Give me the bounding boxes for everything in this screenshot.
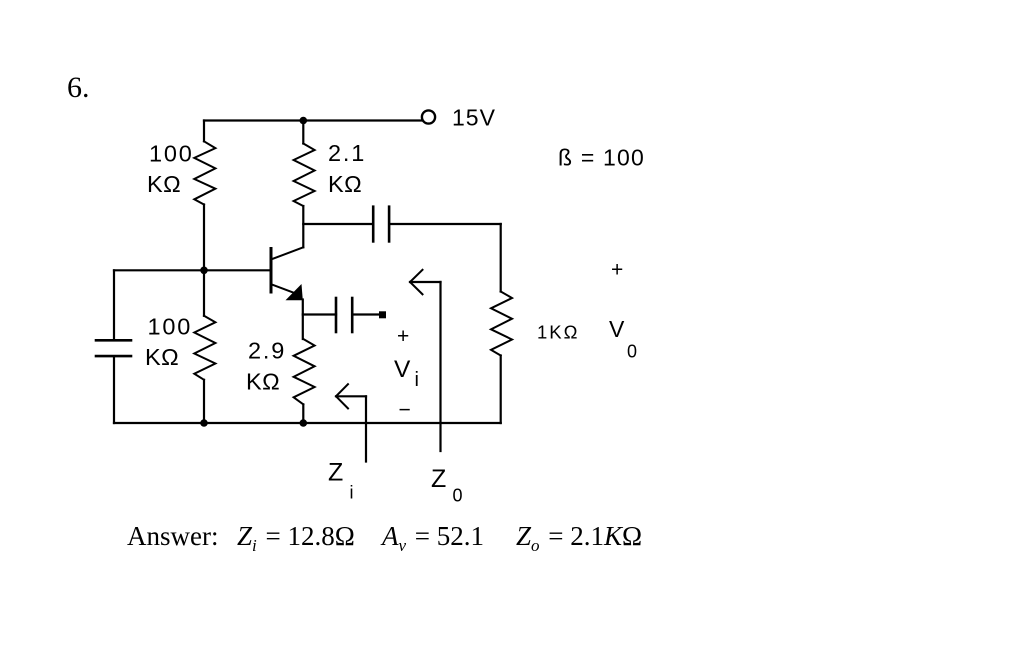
wire R1 bottom to base node [203,205,205,271]
node dot top rail [300,117,308,125]
label answer line [127,521,642,555]
label Zo [431,465,463,506]
svg-text:V: V [609,316,625,342]
terminal 15V [422,110,435,123]
node square bypass cap end [379,311,386,318]
wire right vertical to R5 [500,224,502,292]
svg-text:KΩ: KΩ [145,344,179,370]
resistor R2 2.1K [294,144,315,207]
label R1 value 100 [149,141,194,167]
label R4 value 2.9 [248,338,286,364]
label beta = 100 [558,145,645,171]
wire R3 bottom [203,380,205,423]
svg-text:15V: 15V [452,105,496,131]
node dot base [200,267,208,275]
svg-text:−: − [399,399,411,422]
svg-text:+: + [397,325,409,348]
node dot bottom emitter [300,419,308,427]
wire base [114,269,270,271]
transistor Q1 base bar [270,249,273,293]
wire input left vertical bottom [113,356,115,423]
label R4 unit KOhm [246,369,280,395]
svg-text:1KΩ: 1KΩ [537,322,579,343]
svg-text:100: 100 [148,314,193,340]
svg-text:Answer:: Answer: [127,521,218,551]
label Vo plus [611,259,623,282]
label problem number 6. [67,71,90,104]
capacitor C1 input [96,340,131,356]
svg-text:0: 0 [627,342,637,362]
wire R4 bottom [302,404,304,423]
resistor R1 100K [194,141,215,204]
label Vi [394,356,419,391]
svg-text:KΩ: KΩ [147,171,181,197]
label Vi plus [397,325,409,348]
svg-text:2.9: 2.9 [248,338,286,364]
svg-text:100: 100 [149,141,194,167]
label Zi [328,459,354,503]
node dot bottom left [200,419,208,427]
label R3 unit KOhm [145,344,179,370]
label R1 unit KOhm [147,171,181,197]
svg-text:ß = 100: ß = 100 [558,145,645,171]
wire R2 top [302,121,304,144]
wire R3 top [203,270,205,316]
label R2 unit KOhm [328,171,362,197]
svg-text:Zi = 12.8Ω: Zi = 12.8Ω [237,521,355,555]
svg-text:Zo = 2.1KΩ: Zo = 2.1KΩ [516,521,642,555]
wire collector cap left [303,223,373,225]
label Vo [609,316,637,362]
wire bypass cap right stub [352,313,379,315]
svg-text:2.1: 2.1 [328,140,366,166]
capacitor C2 output coupling [373,207,389,242]
svg-text:0: 0 [453,486,463,506]
transistor Q1 emitter lead [272,285,296,294]
wire R1 top [203,121,205,142]
svg-text:Av = 52.1: Av = 52.1 [380,521,484,555]
label Vi minus [399,399,411,422]
svg-text:i: i [415,369,419,391]
svg-text:KΩ: KΩ [246,369,280,395]
svg-text:Z: Z [328,459,343,487]
resistor R4 2.9K [294,339,315,404]
label 15V [452,105,496,131]
svg-text:+: + [611,259,623,282]
transistor Q1 collector lead [272,247,303,259]
resistor R5 1K [491,292,512,356]
wire R5 bottom [500,356,502,424]
resistor R3 100K [194,316,215,380]
wire input left vertical top [113,270,115,340]
wire collector cap right [389,223,501,225]
svg-text:6.: 6. [67,71,90,104]
wire bottom rail [114,422,501,424]
svg-text:KΩ: KΩ [328,171,362,197]
wire emitter vertical [302,300,304,340]
arrow Zi [336,384,366,461]
svg-text:i: i [350,483,354,503]
label R2 value 2.1 [328,140,366,166]
label R3 value 100 [148,314,193,340]
wire top rail [204,119,422,121]
arrow Zo [410,270,441,451]
svg-text:V: V [394,356,411,383]
transistor Q1 emitter arrowhead [286,284,303,300]
wire collector vertical [302,206,304,247]
capacitor C3 emitter bypass [336,298,352,332]
svg-text:Z: Z [431,465,446,493]
label R5 value 1KOhm [537,322,579,343]
wire bypass cap left [303,313,336,315]
